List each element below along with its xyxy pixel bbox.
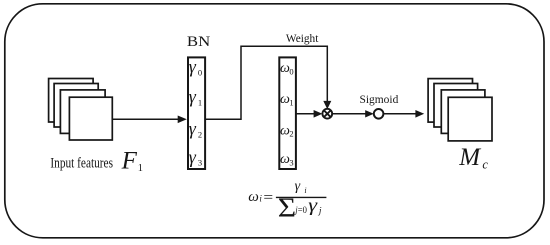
BN box xyxy=(188,57,205,169)
arrow: input features to BN xyxy=(112,116,186,124)
svg-text:Weight: Weight xyxy=(286,33,319,45)
svg-text:2: 2 xyxy=(289,129,293,139)
svg-text:ω: ω xyxy=(248,189,259,205)
svg-text:0: 0 xyxy=(289,66,293,76)
svg-text:1: 1 xyxy=(138,163,143,174)
svg-text:Input features: Input features xyxy=(50,155,113,171)
svg-text:j=0: j=0 xyxy=(294,205,307,215)
svg-text:=: = xyxy=(263,190,273,206)
svg-text:c: c xyxy=(482,157,488,171)
svg-text:Σ: Σ xyxy=(278,193,296,223)
svg-text:0: 0 xyxy=(198,67,202,77)
arrow: omega box to multiplier xyxy=(296,110,323,118)
svg-text:F: F xyxy=(121,147,138,174)
svg-text:1: 1 xyxy=(198,97,202,107)
svg-text:γ: γ xyxy=(189,119,197,139)
svg-text:2: 2 xyxy=(198,130,202,140)
multiplier symbol (circled x) xyxy=(322,109,332,119)
wire: BN output up and over to multiplier (weight line) xyxy=(205,46,327,119)
arrow: sigmoid to output stack xyxy=(384,110,424,118)
arrow: multiplier to sigmoid xyxy=(332,110,374,117)
omega weight box xyxy=(279,57,296,169)
svg-text:γ: γ xyxy=(189,87,197,107)
svg-text:γ: γ xyxy=(308,195,318,215)
svg-text:γ: γ xyxy=(189,147,197,167)
input feature map stack xyxy=(49,79,113,141)
arrowhead: weight line into multiplier xyxy=(323,101,331,109)
sigmoid node xyxy=(374,109,384,119)
svg-text:3: 3 xyxy=(198,158,202,168)
output feature map stack xyxy=(428,79,492,141)
formula: fraction bar xyxy=(276,196,327,198)
svg-text:BN: BN xyxy=(187,34,210,50)
svg-text:3: 3 xyxy=(289,158,293,168)
svg-text:1: 1 xyxy=(289,97,293,107)
svg-text:i: i xyxy=(304,186,306,195)
svg-text:γ: γ xyxy=(189,57,197,77)
svg-text:Sigmoid: Sigmoid xyxy=(360,92,399,106)
svg-text:M: M xyxy=(458,144,481,171)
formula: omega_i = gamma_i over sum_j=0 gamma_j xyxy=(248,179,326,223)
